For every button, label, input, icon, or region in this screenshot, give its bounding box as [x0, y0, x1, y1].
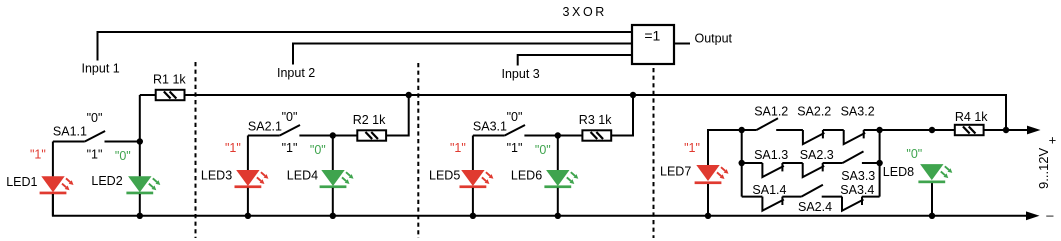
label SA3.4: [840, 183, 874, 197]
wire SA2.1 to LED4 node and R2: [299, 135, 357, 137]
wire LED2 cathode stem: [139, 194, 141, 216]
node junction SA2.1/LED4: [330, 132, 336, 138]
wire row2 segment d: [862, 162, 880, 164]
label "1" state red: [225, 141, 241, 155]
label "0" state green: [310, 143, 326, 157]
wire row1 segment b: [776, 129, 803, 131]
wire R2 to bus riser: [386, 95, 409, 136]
wire row2 segment b: [782, 162, 802, 164]
label "1" position: [282, 141, 298, 155]
svg-text:SA1.1: SA1.1: [53, 124, 87, 138]
node rail junction LED7: [705, 213, 711, 219]
svg-text:LED3: LED3: [201, 169, 232, 183]
label SA1.3: [754, 148, 788, 162]
svg-text:Output: Output: [695, 31, 733, 45]
wire LED2 anode stem: [139, 142, 141, 177]
wire row3 segment a: [742, 196, 763, 198]
wire LED4 cathode stem: [332, 188, 334, 216]
svg-text:SA1.2: SA1.2: [754, 105, 788, 119]
node Input 1 stub and wire to gate: [98, 32, 633, 61]
node Input 3 stub and wire to gate: [518, 55, 632, 66]
wire LED4 anode stem: [332, 136, 334, 171]
xor gate U1 (=1): [632, 25, 674, 64]
svg-text:"1": "1": [450, 141, 466, 155]
wire LED5 to switch SA3.1: [473, 135, 505, 137]
wire LED5 cathode stem: [472, 188, 474, 216]
wire LED3 cathode stem: [247, 188, 249, 216]
node junction bus-R2: [406, 92, 412, 98]
label "0" state green LED8: [906, 147, 922, 161]
wire LED7 cathode stem: [707, 184, 709, 216]
wire LED6 anode stem: [557, 136, 559, 171]
switch SA1.1: [85, 131, 105, 142]
label "0" state green: [535, 143, 551, 157]
wire LED3 anode stem: [247, 136, 249, 171]
wire row1 segment a: [742, 129, 757, 131]
node rail junction LED6: [555, 213, 561, 219]
label 9...12V: [1036, 147, 1051, 189]
wire ground rail: [53, 194, 1040, 220]
svg-text:+: +: [1049, 133, 1057, 148]
svg-text:LED7: LED7: [660, 164, 691, 178]
node junction bus-R3: [630, 92, 636, 98]
label Input 3: [502, 67, 540, 81]
svg-text:"1": "1": [282, 141, 298, 155]
label SA1.1: [53, 124, 87, 138]
wire row2 segment a: [742, 162, 763, 164]
node rail junction LED5: [470, 213, 476, 219]
label "0" position: [282, 110, 298, 124]
svg-text:"1": "1": [87, 148, 103, 162]
svg-text:LED1: LED1: [6, 175, 37, 189]
node rail junction LED8: [929, 213, 935, 219]
label "0" state green: [115, 149, 131, 163]
label "1" position: [87, 148, 103, 162]
svg-text:"1": "1": [225, 141, 241, 155]
wire +V bus: [140, 95, 1006, 130]
label - minus: [1046, 208, 1054, 223]
label LED3: [201, 169, 232, 183]
svg-text:"1": "1": [684, 141, 700, 155]
svg-text:"1": "1": [507, 141, 523, 155]
svg-text:R4 1k: R4 1k: [955, 110, 988, 124]
LED LED4 (green): [320, 170, 354, 188]
node right rail row2: [876, 160, 882, 166]
LED LED8 (green): [918, 164, 952, 183]
LED LED3 (red): [235, 170, 269, 188]
node left rail row1: [739, 127, 745, 133]
svg-text:"0": "0": [115, 149, 131, 163]
svg-text:9...12V: 9...12V: [1036, 147, 1051, 189]
LED LED7 (red): [695, 165, 729, 184]
label "1" state red: [30, 148, 46, 162]
wire LED8 cathode stem: [931, 183, 933, 216]
svg-text:LED6: LED6: [511, 169, 542, 183]
wire row3 segment c: [822, 196, 842, 198]
label LED5: [429, 169, 460, 183]
switch SA1.3 (closed): [762, 163, 784, 177]
svg-text:SA3.2: SA3.2: [841, 105, 875, 119]
svg-text:"0": "0": [535, 143, 551, 157]
wire SA3.1 to LED6 node and R3: [524, 135, 582, 137]
label LED6: [511, 169, 542, 183]
dashed separator 1: [195, 62, 197, 238]
svg-text:SA3.1: SA3.1: [473, 120, 507, 134]
switch SA1.2 (open): [757, 118, 779, 130]
label SA2.2: [797, 105, 831, 119]
label SA2.1: [248, 120, 282, 134]
node junction LED8 top: [929, 127, 935, 133]
label LED2: [91, 174, 122, 188]
wire LED7 top corner to matrix: [708, 130, 742, 165]
svg-text:LED5: LED5: [429, 169, 460, 183]
label "0" position: [507, 110, 523, 124]
label "0" position: [87, 111, 103, 125]
label Output: [695, 31, 733, 45]
label SA2.3: [800, 148, 834, 162]
LED LED2 (green): [126, 176, 160, 194]
switch SA1.4 (closed): [762, 197, 784, 211]
label SA3.2: [841, 105, 875, 119]
wire SA1.1 to LED2 node: [105, 141, 140, 143]
node junction SA1.1/LED2/R1: [137, 138, 143, 144]
svg-text:R3 1k: R3 1k: [579, 113, 612, 127]
node right rail row1: [876, 127, 882, 133]
wire LED1 anode stem: [52, 142, 54, 177]
wire LED1 cathode stem: [52, 194, 54, 216]
dashed separator 2: [417, 63, 419, 238]
LED LED1 (red): [40, 176, 74, 194]
wire LED1 to switch SA1.1: [53, 141, 85, 143]
svg-text:SA2.4: SA2.4: [798, 200, 832, 214]
label Input 1: [82, 62, 120, 76]
wire R1 riser to switch line: [139, 95, 141, 142]
label Input 2: [277, 66, 315, 80]
svg-text:SA2.3: SA2.3: [800, 148, 834, 162]
svg-text:LED2: LED2: [91, 174, 122, 188]
label SA3.3: [841, 169, 875, 183]
label LED4: [287, 169, 318, 183]
svg-text:"1": "1": [30, 148, 46, 162]
label SA1.2: [754, 105, 788, 119]
switch SA3.4 (closed): [842, 197, 864, 211]
wire row1 segment c: [823, 129, 844, 131]
label + plus: [1049, 133, 1057, 148]
label "1" position: [507, 141, 523, 155]
label 3XOR: [563, 5, 607, 19]
svg-text:SA1.4: SA1.4: [752, 183, 786, 197]
dashed separator 3 below gate: [653, 68, 655, 238]
switch SA2.3 (closed): [803, 163, 825, 177]
wire R3 to bus riser: [611, 95, 633, 136]
svg-text:–: –: [1046, 208, 1054, 223]
node junction + terminal: [1003, 127, 1009, 133]
wire row1 segment d: [864, 129, 880, 131]
svg-text:=1: =1: [644, 28, 660, 44]
label SA2.4: [798, 200, 832, 214]
label R4 1k: [955, 110, 988, 124]
wire LED3 to switch SA2.1: [248, 135, 280, 137]
svg-text:LED4: LED4: [287, 169, 318, 183]
switch SA3.1: [505, 125, 525, 136]
svg-text:SA3.3: SA3.3: [841, 169, 875, 183]
svg-text:SA2.1: SA2.1: [248, 120, 282, 134]
wire R4 to + node: [984, 129, 1006, 131]
svg-text:SA2.2: SA2.2: [797, 105, 831, 119]
node rail junction LED3: [245, 213, 251, 219]
svg-text:R1 1k: R1 1k: [153, 73, 186, 87]
resistor R2 1k: [357, 130, 386, 140]
node rail junction LED2: [137, 213, 143, 219]
node rail junction LED4: [330, 213, 336, 219]
switch SA2.1: [280, 125, 300, 136]
wire output of gate: [674, 43, 690, 45]
wire LED5 anode stem: [472, 136, 474, 171]
switch SA3.2 (closed): [844, 130, 866, 144]
label "1" state red LED7: [684, 141, 700, 155]
label R3 1k: [579, 113, 612, 127]
matrix left rail: [741, 130, 743, 197]
svg-text:"0": "0": [310, 143, 326, 157]
label LED7: [660, 164, 691, 178]
svg-text:Input 2: Input 2: [277, 66, 315, 80]
label SA3.1: [473, 120, 507, 134]
resistor R4 1k: [955, 125, 984, 135]
resistor R1 1k: [156, 90, 185, 100]
svg-text:Input 1: Input 1: [82, 62, 120, 76]
svg-text:SA1.3: SA1.3: [754, 148, 788, 162]
node junction SA3.1/LED6: [555, 132, 561, 138]
wire row2 segment c: [823, 162, 843, 164]
svg-text:LED8: LED8: [883, 165, 914, 179]
svg-text:SA3.4: SA3.4: [840, 183, 874, 197]
svg-text:"0": "0": [507, 110, 523, 124]
wire + terminal arrow: [1006, 126, 1041, 135]
resistor R3 1k: [582, 130, 611, 140]
svg-text:R2 1k: R2 1k: [353, 113, 386, 127]
matrix right rail: [879, 130, 881, 197]
wire row3 segment d: [862, 196, 880, 198]
label LED8: [883, 165, 914, 179]
wire LED6 cathode stem: [557, 188, 559, 216]
LED LED6 (green): [544, 170, 578, 188]
node Input 2 stub and wire to gate: [293, 44, 632, 65]
svg-text:"0": "0": [906, 147, 922, 161]
svg-text:"0": "0": [282, 110, 298, 124]
label SA1.4: [752, 183, 786, 197]
label R1 1k: [153, 73, 186, 87]
label "1" state red: [450, 141, 466, 155]
svg-text:3XOR: 3XOR: [563, 5, 607, 19]
svg-text:"0": "0": [87, 111, 103, 125]
label R2 1k: [353, 113, 386, 127]
label LED1: [6, 175, 37, 189]
switch SA2.2 (closed): [803, 130, 825, 144]
svg-text:Input 3: Input 3: [502, 67, 540, 81]
switch SA2.4 (open): [801, 185, 823, 197]
wire row3 segment b: [782, 196, 801, 198]
wire row1 to LED8 and R4: [880, 129, 955, 131]
switch SA3.3 (open): [843, 151, 864, 163]
node left rail row2: [739, 160, 745, 166]
LED LED5 (red): [460, 170, 494, 188]
